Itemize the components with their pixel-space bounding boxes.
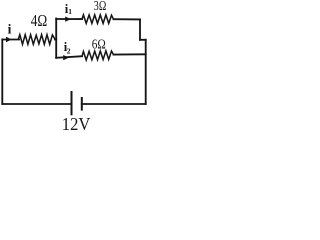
wire top branch left of 3ohm bbox=[56, 18, 82, 20]
svg-text:i: i bbox=[8, 22, 12, 37]
wire 4ohm branch left bbox=[2, 39, 19, 41]
wire 4ohm branch right bbox=[55, 39, 56, 41]
resistor 4ohm zigzag bbox=[18, 35, 55, 45]
current arrow i1 bbox=[65, 17, 71, 22]
resistor 3ohm zigzag bbox=[82, 15, 114, 24]
wire right vertical upper bbox=[139, 19, 141, 39]
wire bottom left (to battery) bbox=[2, 103, 71, 105]
current arrow i2 bbox=[63, 55, 69, 60]
resistor 6ohm zigzag bbox=[82, 51, 114, 60]
svg-text:2: 2 bbox=[67, 46, 71, 55]
svg-text:1: 1 bbox=[68, 7, 72, 16]
wire left vertical bbox=[1, 40, 3, 105]
battery long plate bbox=[71, 91, 73, 115]
wire 6ohm branch left bbox=[56, 56, 82, 58]
svg-text:12V: 12V bbox=[62, 114, 91, 132]
node B junction vertical bbox=[55, 19, 57, 58]
current arrow i bbox=[6, 37, 12, 42]
wire 6ohm branch right of 6ohm bbox=[114, 53, 146, 55]
svg-text:4Ω: 4Ω bbox=[31, 11, 48, 30]
wire right vertical lower bbox=[145, 40, 147, 104]
svg-text:3Ω: 3Ω bbox=[94, 0, 107, 13]
svg-text:6Ω: 6Ω bbox=[92, 36, 106, 51]
wire bottom right (from battery) bbox=[82, 103, 146, 105]
wire stub top right bbox=[140, 39, 146, 41]
wire top branch right of 3ohm bbox=[114, 18, 141, 20]
battery short plate bbox=[81, 97, 83, 111]
